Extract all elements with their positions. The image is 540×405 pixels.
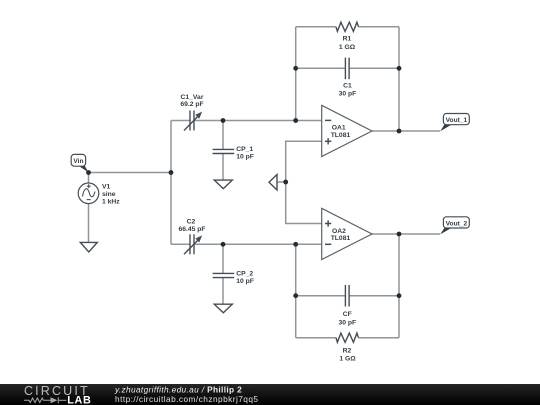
svg-text:C1: C1 <box>343 82 352 89</box>
svg-text:1 GΩ: 1 GΩ <box>339 356 356 363</box>
svg-text:1 kHz: 1 kHz <box>102 199 120 206</box>
svg-text:1 GΩ: 1 GΩ <box>339 44 356 51</box>
svg-text:10 pF: 10 pF <box>236 154 254 161</box>
svg-text:C2: C2 <box>187 218 196 225</box>
svg-text:OA1: OA1 <box>332 125 346 132</box>
svg-text:LAB: LAB <box>67 394 91 405</box>
svg-text:Vout_2: Vout_2 <box>446 220 468 227</box>
svg-text:R2: R2 <box>343 347 352 354</box>
svg-text:Vin: Vin <box>73 158 83 165</box>
svg-text:sine: sine <box>102 191 116 198</box>
svg-text:CF: CF <box>343 311 352 318</box>
svg-text:CP_1: CP_1 <box>236 146 253 153</box>
svg-text:66.45 pF: 66.45 pF <box>178 226 205 233</box>
svg-text:CP_2: CP_2 <box>236 270 253 277</box>
svg-text:10 pF: 10 pF <box>236 278 254 285</box>
svg-text:69.2 pF: 69.2 pF <box>180 101 203 108</box>
svg-text:C1_Var: C1_Var <box>181 94 204 101</box>
svg-text:30 pF: 30 pF <box>338 319 356 326</box>
svg-text:http://circuitlab.com/chznpbkr: http://circuitlab.com/chznpbkrj7qq5 <box>115 394 259 404</box>
svg-text:Vout_1: Vout_1 <box>446 117 468 124</box>
svg-text:TL081: TL081 <box>331 132 351 139</box>
svg-text:TL081: TL081 <box>331 235 351 242</box>
svg-text:OA2: OA2 <box>332 228 346 235</box>
svg-text:30 pF: 30 pF <box>339 91 357 98</box>
svg-text:V1: V1 <box>102 183 111 190</box>
svg-text:R1: R1 <box>343 36 352 43</box>
